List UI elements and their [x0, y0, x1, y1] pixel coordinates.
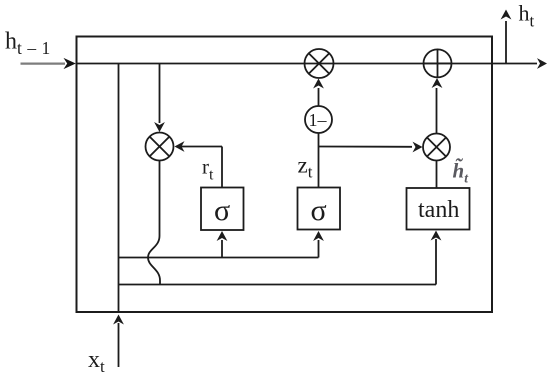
wire: from tanh box up to candidate multiplier	[436, 161, 438, 189]
sigma box 1 (reset gate)	[201, 188, 244, 231]
wire: branch arrow up into sigma box 1	[221, 240, 223, 258]
wire: x(t) input vertical below cell	[118, 323, 120, 367]
svg-text:xt: xt	[88, 347, 105, 376]
arrowhead h(t) output right	[537, 58, 547, 69]
svg-text:σ: σ	[214, 194, 230, 227]
multiplier node (reset gate)	[146, 133, 174, 161]
svg-text:ht – 1: ht – 1	[5, 29, 51, 59]
wire: arrow from 1- node up into z multiplier	[318, 88, 320, 106]
tanh box	[407, 188, 470, 230]
arrowhead entering cell (h t-1 input)	[64, 58, 76, 69]
wire: vertical from r wire down to sigma box 1	[221, 147, 223, 188]
wire: turn up into sigma box 2	[318, 240, 320, 258]
wire: from 1- node down to sigma box 2	[318, 133, 320, 188]
svg-text:ht: ht	[519, 1, 535, 31]
wire: h(t) output branch up	[505, 21, 507, 64]
multiplier node (z gate, on h-line)	[305, 49, 334, 78]
svg-text:zt: zt	[298, 153, 313, 182]
arrowhead h(t) up	[501, 10, 512, 20]
multiplier node (candidate)	[423, 134, 450, 161]
svg-text:σ: σ	[311, 194, 327, 227]
adder node (on h-line)	[424, 49, 452, 77]
arrowhead x(t) into cell bottom	[113, 315, 124, 325]
wire: z branch to candidate multiplier	[319, 146, 413, 148]
wire: r(t) arrow into reset multiplier	[176, 146, 222, 148]
wire: h(t-1) input shaft (gray)	[21, 62, 66, 64]
svg-text:rt: rt	[202, 155, 214, 184]
arrowhead into reset multiplier top	[154, 122, 165, 132]
svg-text:tanh: tanh	[418, 197, 459, 223]
svg-text:1–: 1–	[309, 110, 328, 130]
wire: below reset multiplier with hop over gate line	[148, 161, 160, 285]
wire: turn up into tanh box	[435, 239, 437, 285]
wire: lower gate feed line (first)	[119, 257, 319, 259]
wire: from candidate multiplier up to adder	[436, 88, 438, 134]
wire: lower candidate feed line (second)	[119, 284, 437, 286]
wire: left inner vertical from h-line to bottom edge	[118, 64, 120, 313]
svg-text:h̃t: h̃t	[453, 159, 470, 186]
wire: vertical from h-line down to reset multiplier	[159, 64, 161, 124]
sigma box 2 (update gate)	[298, 188, 341, 230]
outer cell boundary	[77, 37, 493, 313]
wire: h(t-1) main horizontal line	[76, 63, 537, 65]
1- node	[305, 106, 332, 133]
